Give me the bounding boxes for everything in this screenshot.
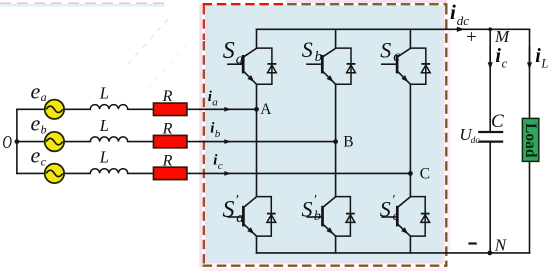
label C capacitor [491, 111, 504, 132]
node B dot [333, 139, 338, 144]
wire phase a from O to source [17, 108, 45, 110]
IGBT switch S'_b with freewheel diode [307, 197, 355, 237]
svg-text:e: e [31, 142, 41, 167]
wire M down to capacitor [489, 29, 491, 131]
svg-text:R: R [162, 121, 173, 138]
inductor L phase a [90, 105, 127, 110]
current arrow i_c capacitor branch [488, 47, 493, 70]
wire source to inductor b [64, 141, 90, 143]
dashed boundary top edge (red part) [203, 3, 287, 5]
resistor R phase c [154, 167, 187, 179]
wire top rail corner to load [529, 29, 531, 118]
label O [2, 132, 12, 152]
wire node A to lower switch [256, 109, 258, 196]
svg-text:c: c [41, 154, 47, 168]
label i_b [210, 121, 221, 140]
svg-text:e: e [31, 111, 41, 136]
svg-text:A: A [260, 101, 272, 118]
svg-text:C: C [491, 111, 504, 132]
label i_dc [450, 0, 469, 28]
svg-text:O: O [2, 132, 12, 152]
label L phase a [99, 84, 109, 103]
svg-text:dc: dc [457, 13, 470, 28]
svg-text:S: S [302, 197, 313, 222]
svg-text:L: L [99, 116, 109, 135]
top DC rail wire [257, 28, 530, 30]
dashed boundary top edge (olive part) [287, 3, 447, 5]
label R phase a [162, 88, 173, 105]
IGBT switch S'_a with freewheel diode [228, 197, 276, 237]
load box [522, 118, 539, 161]
resistor R phase b [154, 135, 187, 147]
label C node [420, 165, 430, 182]
svg-text:C: C [420, 165, 430, 182]
dashed boundary left edge [203, 41, 205, 267]
node O junction dot [15, 139, 20, 144]
IGBT switch S'_c with freewheel diode [382, 197, 430, 237]
svg-text:M: M [494, 27, 510, 46]
wire inductor to resistor c [128, 172, 154, 174]
svg-text:S: S [380, 37, 391, 62]
label i_c capacitor branch [495, 45, 507, 71]
svg-text:R: R [162, 88, 173, 105]
AC source e_a [45, 100, 64, 119]
current arrow i_dc on top rail [457, 27, 465, 32]
svg-text:b: b [215, 128, 221, 140]
label i_L [535, 45, 548, 71]
AC source e_b [45, 132, 64, 151]
svg-text:c: c [393, 209, 400, 224]
svg-text:i: i [495, 45, 501, 67]
svg-text:S: S [223, 38, 235, 64]
wire leg C upper to node C [409, 84, 411, 173]
wire lower switch B to bottom rail [335, 236, 337, 253]
dashed boundary right edge [445, 5, 447, 267]
label S_a [223, 38, 244, 67]
current arrow i_L load branch [527, 47, 532, 70]
label L phase b [99, 116, 109, 135]
svg-text:dc: dc [471, 136, 481, 146]
converter boundary: light blue region [205, 5, 442, 261]
svg-text:L: L [99, 148, 109, 167]
stray pink dashed artifact line top-left [0, 3, 196, 88]
wire resistor into converter phase b [187, 141, 336, 143]
IGBT switch S_b with freewheel diode [307, 29, 355, 84]
node M dot [488, 27, 492, 31]
wire source to inductor c [64, 172, 90, 174]
svg-text:+: + [466, 27, 477, 48]
label e_c [31, 142, 47, 168]
svg-text:B: B [343, 134, 353, 151]
node O bus vertical wire [16, 109, 18, 173]
label R phase c [162, 152, 173, 169]
svg-text:i: i [535, 45, 541, 67]
svg-text:L: L [540, 56, 548, 70]
dashed boundary left edge top segment (red) [203, 5, 205, 40]
wire phase c from O to source [17, 172, 45, 174]
label S'_a [223, 193, 244, 226]
svg-text:b: b [41, 123, 47, 137]
svg-text:c: c [502, 57, 508, 71]
plus sign DC bus [466, 27, 477, 48]
label e_a [31, 78, 47, 104]
label N [494, 235, 508, 254]
svg-text:b: b [315, 49, 323, 65]
label U_dc [459, 125, 480, 146]
wire load to bottom rail [529, 161, 531, 253]
wire capacitor down to N [489, 142, 491, 253]
svg-text:N: N [494, 235, 508, 254]
svg-text:a: a [212, 97, 218, 109]
inductor L phase c [90, 169, 127, 174]
svg-text:Load: Load [522, 123, 539, 158]
label S_b [302, 37, 323, 65]
svg-text:R: R [162, 152, 173, 169]
bottom DC rail wire [257, 252, 530, 254]
svg-text:b: b [314, 209, 321, 224]
wire node C to lower switch [409, 173, 411, 196]
node N dot [487, 251, 492, 256]
label B [343, 134, 353, 151]
svg-text:S: S [380, 197, 391, 222]
svg-text:e: e [31, 78, 41, 103]
minus sign DC bus [468, 242, 476, 244]
wire node B to lower switch [335, 142, 337, 197]
wire inductor to resistor a [128, 108, 154, 110]
dashed boundary bottom edge [203, 265, 448, 267]
wire lower switch A to bottom rail [256, 236, 258, 253]
wire resistor into converter phase c [187, 172, 411, 174]
label S'_c [380, 193, 400, 224]
IGBT switch S_c with freewheel diode [382, 29, 430, 84]
svg-text:c: c [393, 48, 400, 65]
svg-text:i: i [450, 0, 456, 24]
svg-text:a: a [41, 90, 47, 104]
svg-text:S: S [302, 37, 313, 62]
resistor R phase a [154, 103, 187, 115]
svg-text:c: c [218, 160, 223, 172]
node C dot [408, 171, 413, 176]
pink fringe artifact along borders [201, 1, 450, 269]
node A dot [254, 107, 259, 112]
wire phase b from O to source [17, 141, 45, 143]
svg-text:L: L [99, 84, 109, 103]
label i_c [213, 152, 223, 171]
label L phase c [99, 148, 109, 167]
wire source to inductor a [64, 108, 90, 110]
IGBT switch S_a with freewheel diode [228, 29, 276, 84]
capacitor C plates [478, 132, 503, 142]
svg-text:S: S [223, 197, 235, 223]
current arrow i_c [224, 171, 231, 176]
label i_a [208, 89, 219, 108]
inductor L phase b [90, 137, 127, 142]
wire resistor into converter phase a [187, 108, 257, 110]
wire leg B upper to node B [335, 84, 337, 141]
wire inductor to resistor b [128, 141, 154, 143]
label A [260, 101, 272, 118]
svg-text:a: a [236, 210, 244, 226]
current arrow i_b [224, 139, 231, 144]
wire leg A upper to node A [256, 84, 258, 109]
AC source e_c [45, 164, 64, 183]
label S'_b [302, 193, 321, 224]
label R phase b [162, 121, 173, 138]
label M [494, 27, 510, 46]
svg-text:a: a [236, 52, 244, 68]
current arrow i_a [224, 107, 231, 112]
label S_c [380, 37, 400, 64]
wire lower switch C to bottom rail [409, 236, 411, 253]
label e_b [31, 111, 47, 137]
